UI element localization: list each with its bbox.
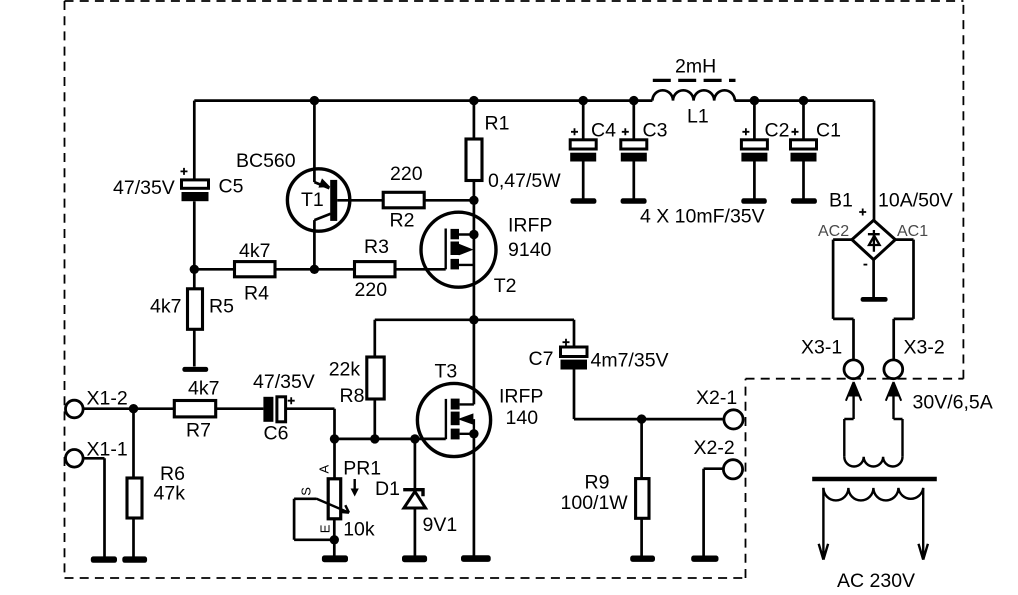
wire: gate row [335, 438, 446, 441]
ground: D1 [402, 555, 427, 562]
svg-text:C6: C6 [264, 423, 289, 445]
resistor R5 4k7 [150, 269, 234, 366]
label: 4 X 10mF/35V [640, 206, 765, 228]
capacitor C1 [791, 101, 841, 199]
svg-text:B1: B1 [829, 190, 853, 212]
node: X1-2/R6 junction [129, 404, 138, 413]
node: rail junction R1 [469, 96, 478, 105]
ground: X2-2 [691, 556, 718, 562]
inductor L1 2mH [652, 56, 735, 128]
svg-text:C1: C1 [816, 120, 841, 142]
node: R1/R2/T2 source junction [469, 196, 478, 205]
svg-text:E: E [318, 524, 333, 533]
ground: PR1 [322, 555, 348, 562]
svg-text:10A/50V: 10A/50V [878, 190, 953, 212]
capacitor C3 [621, 101, 668, 199]
svg-text:4m7/35V: 4m7/35V [591, 350, 669, 372]
svg-text:D1: D1 [375, 478, 400, 500]
wire: X1-2 to R7 [83, 407, 174, 410]
wire: R4/R3 row [194, 268, 445, 271]
svg-text:A: A [317, 465, 332, 474]
svg-text:X3-1: X3-1 [801, 337, 842, 359]
svg-text:L1: L1 [687, 106, 709, 128]
transformer core [812, 477, 937, 482]
resistor R6 47k [127, 409, 185, 557]
svg-text:2mH: 2mH [675, 56, 716, 78]
svg-text:BC560: BC560 [236, 150, 296, 172]
svg-text:IRFP: IRFP [499, 386, 543, 408]
resistor R4 4k7 [235, 240, 276, 305]
node: rail junction T1 [310, 96, 319, 105]
svg-text:C4: C4 [591, 120, 616, 142]
svg-text:IRFP: IRFP [508, 215, 552, 237]
svg-text:9140: 9140 [508, 239, 552, 261]
svg-text:220: 220 [355, 279, 388, 301]
ground: C1 [791, 198, 817, 204]
terminal X2-1 [696, 387, 743, 429]
svg-text:C2: C2 [765, 120, 790, 142]
terminal X2-2 [694, 437, 743, 479]
capacitor C6 47/35V [253, 371, 315, 445]
transistor T1 BC560 [236, 101, 350, 270]
svg-text:R7: R7 [186, 420, 211, 442]
svg-text:AC 230V: AC 230V [837, 570, 915, 592]
capacitor C2 [741, 101, 789, 199]
svg-text:22k: 22k [329, 359, 361, 381]
resistor R7 4k7 [174, 378, 219, 442]
resistor R1 0,47/5W [466, 101, 561, 201]
wire: C6 to gate row [286, 409, 335, 439]
resistor R3 220 [355, 236, 396, 301]
wire: bridge AC1 to X3-2 [894, 240, 914, 360]
svg-text:47/35V: 47/35V [253, 371, 315, 393]
svg-text:220: 220 [390, 163, 423, 185]
node: D1 top junction [410, 434, 419, 443]
wire: bridge AC2 to X3-1 [833, 240, 853, 360]
node: rail junction C1 [799, 96, 808, 105]
svg-text:R4: R4 [244, 283, 269, 305]
ground: C2 [741, 198, 767, 204]
resistor R2 220 [383, 163, 424, 232]
ground: B1 [861, 297, 888, 302]
capacitor C4 [570, 101, 616, 199]
ground: R6 [122, 556, 147, 562]
capacitor C7 4m7/35V [529, 339, 669, 372]
ground: C4 [570, 198, 596, 204]
label: 30V/6,5A [913, 392, 993, 414]
svg-text:4k7: 4k7 [188, 378, 219, 400]
svg-text:AC1: AC1 [897, 223, 928, 240]
svg-text:PR1: PR1 [343, 458, 381, 480]
svg-text:X2-1: X2-1 [696, 387, 737, 409]
wire: bridge minus to ground [872, 260, 875, 298]
wire: T1 base to R2 [337, 199, 383, 202]
resistor R9 100/1W [561, 419, 650, 556]
svg-text:R9: R9 [585, 472, 610, 494]
ground: R9 [630, 556, 655, 562]
svg-text:X3-2: X3-2 [904, 337, 945, 359]
svg-text:47k: 47k [154, 482, 186, 504]
zener diode D1 9V1 [375, 439, 457, 556]
svg-text:X2-2: X2-2 [694, 437, 735, 459]
svg-text:C7: C7 [529, 348, 554, 370]
wire: C7 bottom to X2-1 [574, 370, 723, 420]
svg-text:4k7: 4k7 [150, 296, 181, 318]
svg-text:R1: R1 [485, 113, 510, 135]
transformer primary leads AC 230V [819, 488, 928, 592]
transformer secondary arrows to X3 [844, 382, 902, 457]
transistor T3 IRFP140 [417, 320, 543, 557]
terminal X1-2 [66, 388, 128, 418]
svg-text:47/35V: 47/35V [113, 177, 175, 199]
svg-text:10k: 10k [343, 519, 375, 541]
svg-text:R8: R8 [340, 385, 365, 407]
terminal X3-1 [801, 337, 863, 379]
node: R8 bottom junction [370, 434, 379, 443]
svg-text:R2: R2 [390, 210, 415, 232]
terminal X1-1 [66, 438, 128, 467]
svg-text:140: 140 [506, 407, 539, 429]
wire: T2 drain rail to R8 and C7 [375, 320, 574, 347]
node: R9 top junction [637, 414, 646, 423]
svg-text:AC2: AC2 [818, 223, 849, 240]
wire: R2 to R1 bottom node [424, 199, 474, 202]
svg-text:T3: T3 [435, 361, 458, 383]
node: PR1 top junction [330, 434, 339, 443]
node: T2/T3 drain junction [469, 315, 478, 324]
transistor T2 IRFP9140 [421, 200, 552, 319]
svg-text:100/1W: 100/1W [561, 492, 629, 514]
wire: top supply rail [194, 101, 874, 221]
node: rail junction C3 [629, 96, 638, 105]
bridge rectifier B1 10A/50V [818, 190, 953, 265]
node: rail junction C4 [579, 96, 588, 105]
svg-text:R3: R3 [364, 236, 389, 258]
svg-text:R5: R5 [209, 296, 234, 318]
ground: R5 [182, 367, 208, 372]
node: C5/R4/R5 junction [190, 265, 199, 274]
terminal X3-2 [884, 337, 945, 379]
node: rail junction C2 [750, 96, 759, 105]
transformer primary winding [823, 488, 923, 500]
svg-text:C5: C5 [219, 176, 244, 198]
node: T1 collector junction [310, 265, 319, 274]
svg-text:4 X 10mF/35V: 4 X 10mF/35V [640, 206, 765, 228]
transformer secondary winding [844, 457, 902, 467]
wire: X2-2 to ground [704, 469, 723, 556]
svg-text:4k7: 4k7 [239, 240, 270, 262]
ground: X1-1 [91, 556, 117, 562]
wire: R7 to C6 [216, 407, 264, 410]
svg-text:C3: C3 [643, 120, 668, 142]
svg-text:T1: T1 [301, 189, 324, 211]
svg-text:30V/6,5A: 30V/6,5A [913, 392, 993, 414]
svg-text:X1-2: X1-2 [87, 388, 128, 410]
svg-text:S: S [299, 487, 314, 496]
ground: C3 [621, 198, 647, 204]
ground: T3 [461, 555, 491, 562]
resistor R8 22k [329, 320, 384, 439]
capacitor C5 [113, 101, 244, 270]
potentiometer PR1 10k [294, 439, 381, 556]
wire: X1-1 to ground [83, 458, 104, 556]
svg-text:9V1: 9V1 [423, 514, 458, 536]
svg-text:0,47/5W: 0,47/5W [488, 170, 561, 192]
svg-text:T2: T2 [494, 275, 517, 297]
